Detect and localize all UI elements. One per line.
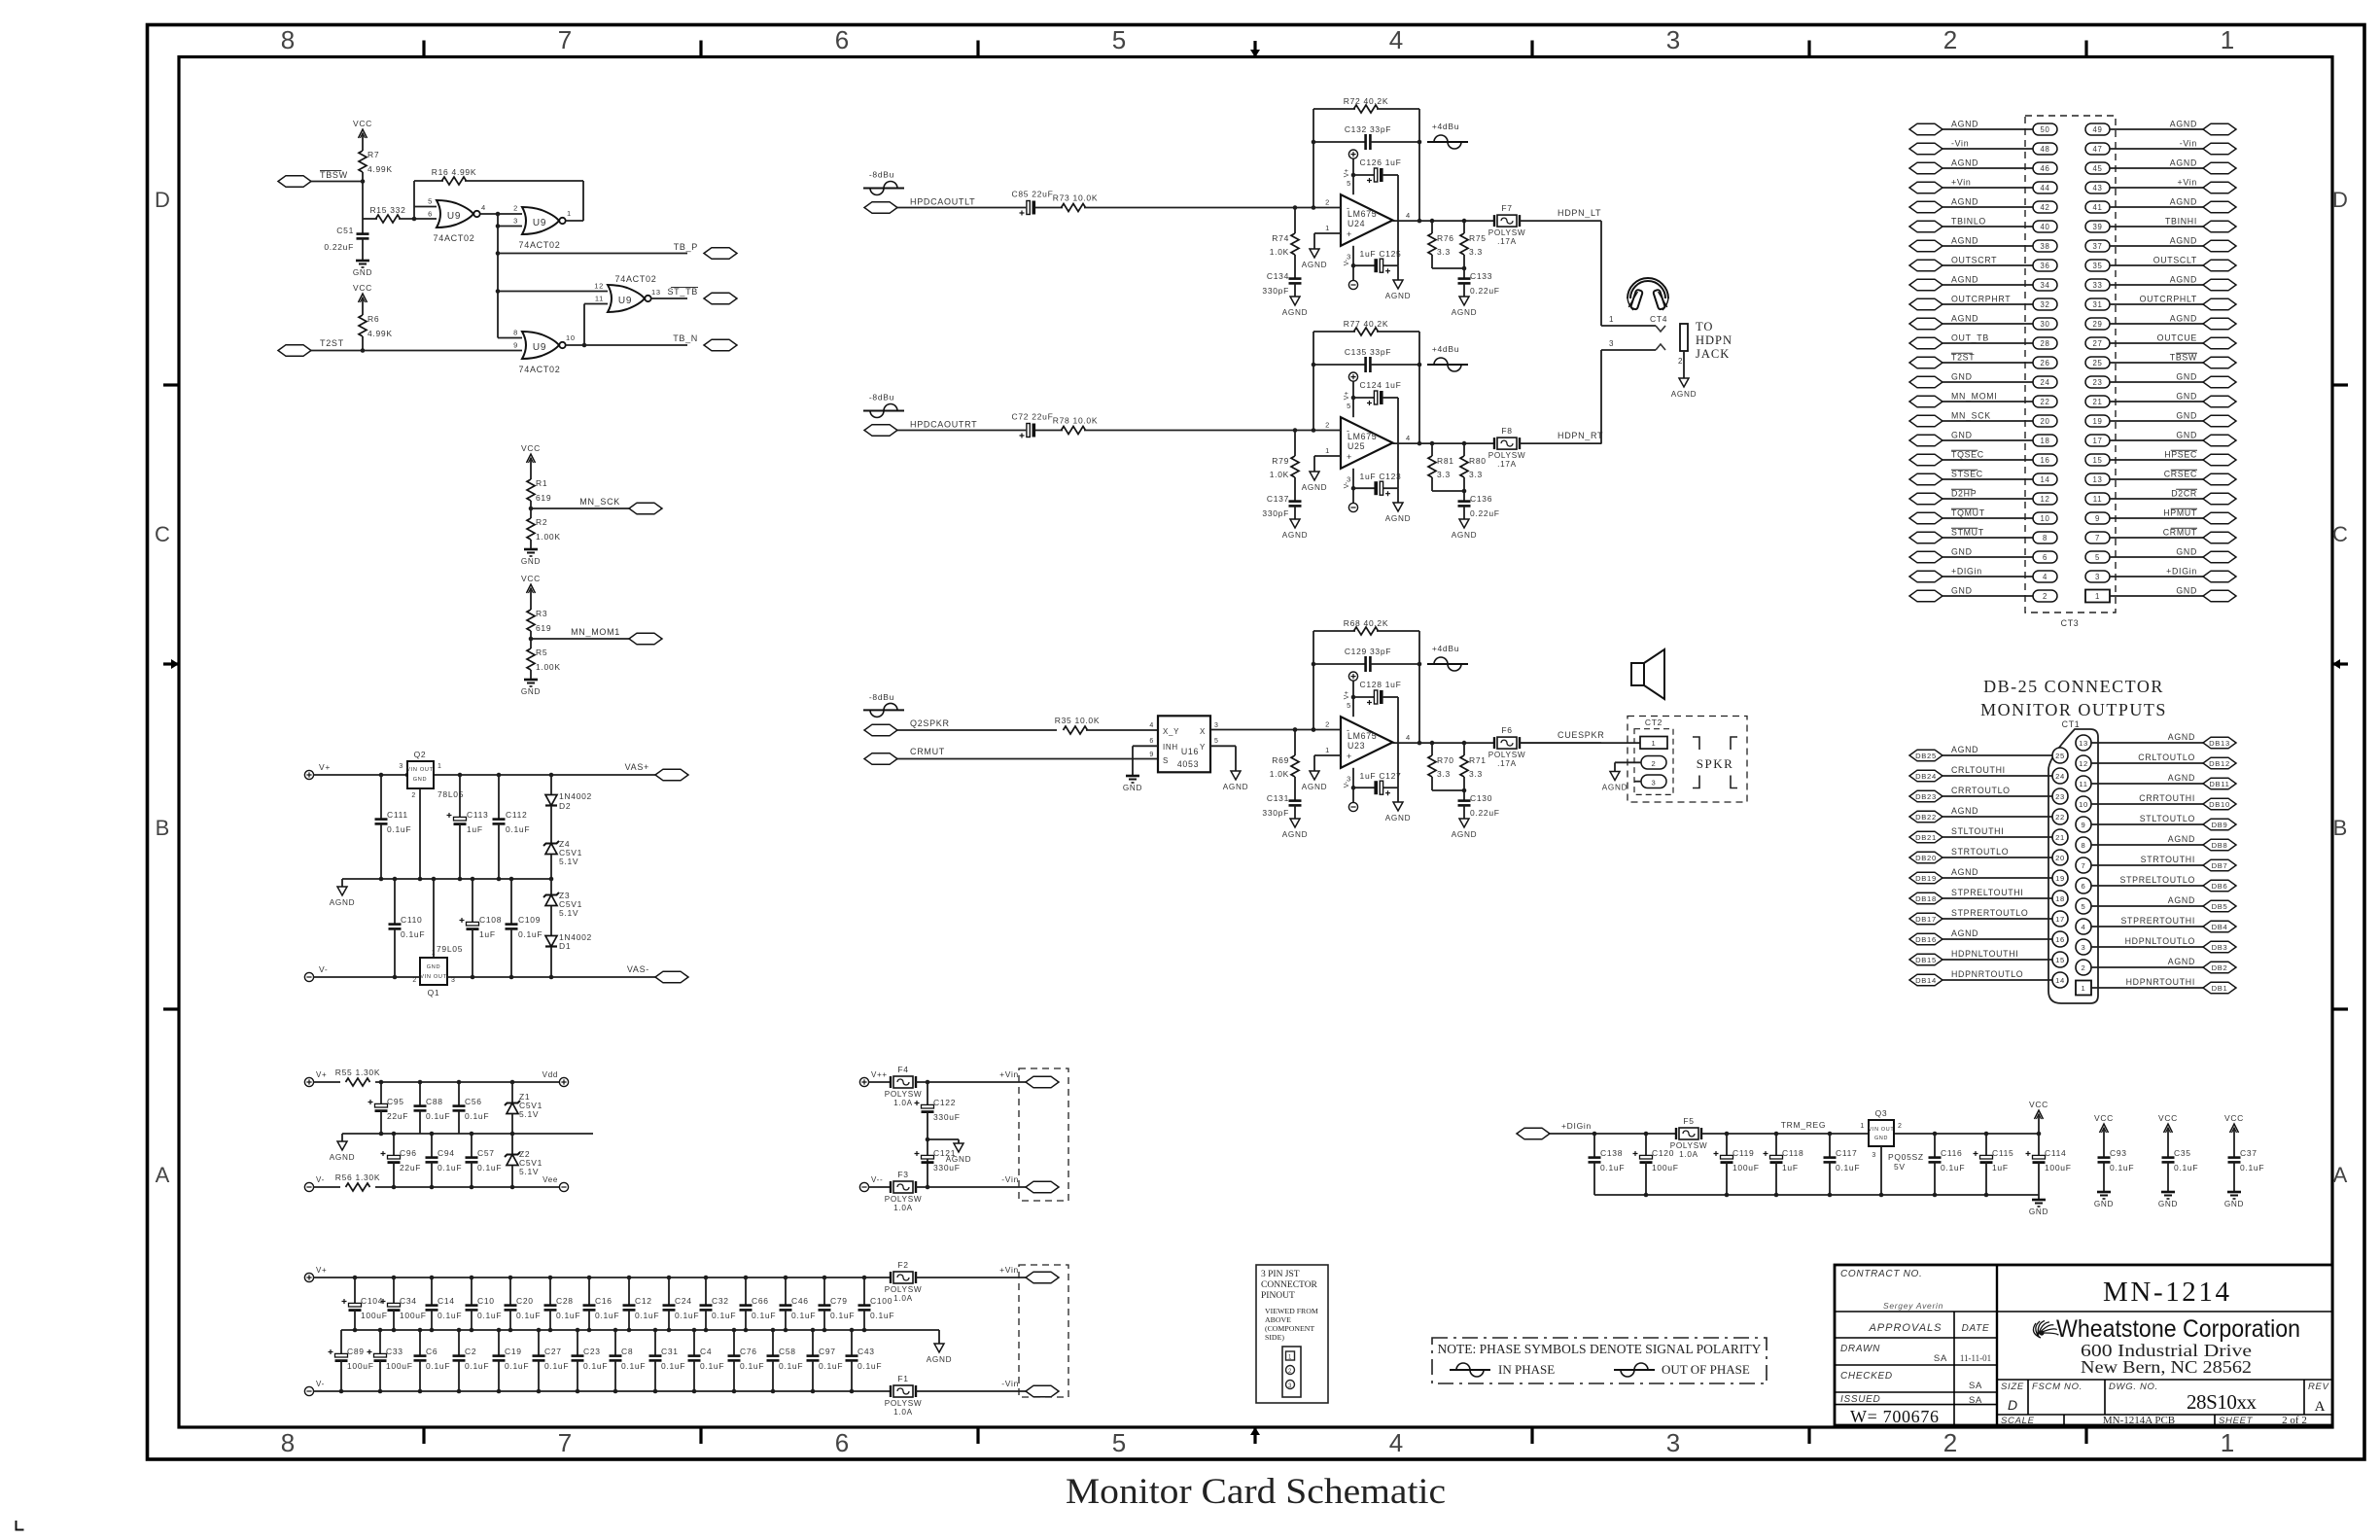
connector CT3 dashed outline <box>2025 116 2116 612</box>
wire feedback right vertical <box>1418 109 1420 221</box>
CT1 pin 6 row: DB6 STPRELTOUTLO <box>2076 875 2236 893</box>
svg-text:0.1uF: 0.1uF <box>465 1361 489 1371</box>
wire CT2 pin 2 to AGND <box>1615 761 1641 763</box>
svg-text:0.1uF: 0.1uF <box>791 1311 816 1320</box>
svg-text:DB4: DB4 <box>2212 923 2228 931</box>
svg-text:AGND: AGND <box>1602 784 1627 792</box>
svg-text:12: 12 <box>2040 495 2049 504</box>
svg-text:Monitor Card Schematic: Monitor Card Schematic <box>1066 1472 1446 1512</box>
dashed box (lower Vin flags) <box>1019 1265 1068 1397</box>
capacitor C19 0.1uF <box>493 1330 530 1391</box>
svg-text:3: 3 <box>1214 722 1219 729</box>
svg-text:REV: REV <box>2308 1382 2330 1392</box>
svg-text:4: 4 <box>1406 211 1411 220</box>
svg-text:GND: GND <box>427 964 441 970</box>
CT3 pin 27 row: OUTCUE <box>2085 333 2236 350</box>
svg-text:F2: F2 <box>897 1260 908 1270</box>
NOR gate U9a 74ACT02 <box>428 197 486 244</box>
power input V+ (cap bank) <box>304 1273 313 1281</box>
capacitor C66 0.1uF <box>740 1277 777 1330</box>
capacitor C110 0.1uF <box>389 879 426 977</box>
title block left column texts <box>1835 1269 1997 1426</box>
analog ground AGND (op-amp pin1) <box>1310 249 1319 258</box>
phase symbol +4dBu (in phase) <box>1427 344 1468 371</box>
svg-text:330pF: 330pF <box>1262 808 1289 818</box>
svg-text:R81: R81 <box>1437 456 1454 466</box>
svg-text:VCC: VCC <box>2029 1100 2048 1109</box>
capacitor C4 0.1uF <box>688 1330 725 1391</box>
zener Z2 C5V1 5.1V <box>505 1134 542 1187</box>
svg-text:C14: C14 <box>437 1296 455 1306</box>
wire R16 feedback vertical <box>413 181 415 219</box>
capacitor C20 0.1uF <box>505 1277 542 1330</box>
svg-text:33: 33 <box>2092 281 2102 290</box>
svg-text:AGND: AGND <box>1385 814 1411 822</box>
svg-text:3: 3 <box>2095 573 2100 581</box>
svg-text:C8: C8 <box>621 1347 633 1356</box>
svg-text:C120: C120 <box>1652 1148 1674 1158</box>
svg-text:5.1V: 5.1V <box>559 857 578 866</box>
input flag +DIGin <box>1517 1121 1676 1139</box>
jack sleeve bar <box>1680 324 1688 351</box>
capacitor C130 0.22uF <box>1458 793 1500 819</box>
svg-text:6: 6 <box>1149 738 1154 745</box>
svg-text:V-: V- <box>316 1175 325 1184</box>
svg-text:0.22uF: 0.22uF <box>324 242 354 252</box>
svg-text:A: A <box>2315 1399 2326 1415</box>
svg-text:VCC: VCC <box>521 443 541 453</box>
svg-text:JACK: JACK <box>1696 347 1730 361</box>
svg-text:30: 30 <box>2040 320 2049 329</box>
svg-text:40: 40 <box>2040 223 2049 231</box>
svg-text:0.1uF: 0.1uF <box>2174 1163 2198 1172</box>
wire bypass right vertical to AGND <box>1397 398 1399 488</box>
svg-text:13: 13 <box>2092 475 2102 484</box>
svg-text:VCC: VCC <box>2158 1113 2178 1123</box>
svg-text:R71: R71 <box>1469 755 1487 765</box>
feedback resistor R77 40.2K <box>1313 319 1419 335</box>
svg-text:HDPNLTOUTHI: HDPNLTOUTHI <box>1951 949 2018 959</box>
svg-text:2: 2 <box>1943 25 1957 54</box>
capacitor C27 0.1uF <box>533 1330 570 1391</box>
svg-text:DB25: DB25 <box>1915 752 1937 760</box>
svg-text:DB10: DB10 <box>2209 800 2230 809</box>
svg-text:2: 2 <box>1678 357 1683 366</box>
svg-text:C23: C23 <box>583 1347 601 1356</box>
svg-text:SHEET: SHEET <box>2219 1416 2254 1426</box>
svg-text:C88: C88 <box>426 1097 443 1106</box>
wire V++ to fuse F4 <box>868 1081 890 1083</box>
CT3 pin 6 row: GND <box>1909 547 2057 564</box>
svg-text:HDPNLTOUTLO: HDPNLTOUTLO <box>2125 936 2195 946</box>
wire regulator mid rail <box>342 878 551 880</box>
CT1 pin 11 row: DB11 AGND <box>2076 773 2236 791</box>
svg-text:C104: C104 <box>361 1296 383 1306</box>
svg-text:C130: C130 <box>1470 793 1492 803</box>
analog ground AGND (op-amp pin1) <box>1310 771 1319 780</box>
CT1 pin 2 row: DB2 AGND <box>2076 957 2236 975</box>
NOR gate U9c 74ACT02 <box>594 274 661 312</box>
svg-text:C137: C137 <box>1267 494 1289 504</box>
capacitor C137 330pF <box>1262 494 1301 519</box>
svg-text:DB13: DB13 <box>2209 739 2230 748</box>
wire op-amp output <box>1393 742 1495 744</box>
capacitor C32 0.1uF <box>700 1277 737 1330</box>
svg-text:VCC: VCC <box>521 574 541 583</box>
svg-text:28S10xx: 28S10xx <box>2187 1390 2257 1414</box>
svg-text:100uF: 100uF <box>1732 1163 1760 1172</box>
svg-text:SIDE): SIDE) <box>1265 1333 1284 1342</box>
capacitor C133 0.22uF <box>1458 271 1500 297</box>
svg-text:1: 1 <box>2095 592 2100 601</box>
capacitor C14 0.1uF <box>426 1277 463 1330</box>
svg-text:C112: C112 <box>506 810 528 820</box>
wire op-amp V+ pin <box>1352 381 1354 417</box>
svg-text:32: 32 <box>2040 300 2049 309</box>
svg-text:1: 1 <box>1325 224 1330 232</box>
svg-text:POLYSW: POLYSW <box>1670 1141 1708 1150</box>
svg-text:R35 10.0K: R35 10.0K <box>1055 716 1100 725</box>
svg-text:V-: V- <box>1344 481 1350 488</box>
analog ground AGND (bypass) <box>1393 802 1403 811</box>
svg-text:CONNECTOR: CONNECTOR <box>1261 1280 1318 1290</box>
svg-text:0.1uF: 0.1uF <box>426 1111 450 1121</box>
svg-text:A: A <box>156 1163 170 1187</box>
output flag TB_P <box>498 242 737 259</box>
svg-text:6: 6 <box>835 1428 849 1457</box>
svg-text:Q2: Q2 <box>414 750 427 759</box>
svg-text:+4dBu: +4dBu <box>1432 122 1459 131</box>
svg-text:AGND: AGND <box>2168 834 2195 844</box>
wire F5 to Q3 and VCC <box>1701 1133 1869 1135</box>
svg-text:AGND: AGND <box>2170 197 2197 207</box>
svg-text:10: 10 <box>2040 514 2049 523</box>
svg-text:8: 8 <box>2043 534 2047 542</box>
svg-text:GND: GND <box>1123 784 1142 792</box>
svg-text:R68 40.2K: R68 40.2K <box>1344 618 1388 628</box>
title block outline <box>1835 1265 2332 1425</box>
resistor R78 10.0K <box>1053 416 1341 435</box>
svg-text:13: 13 <box>651 288 661 297</box>
CT1 pin 21 row: DB21 STLTOUTHI <box>1909 826 2068 845</box>
svg-text:AGND: AGND <box>330 1153 355 1162</box>
svg-text:CT2: CT2 <box>1645 717 1662 727</box>
CT1 pin 23 row: DB23 CRRTOUTLO <box>1909 786 2068 804</box>
svg-text:+4dBu: +4dBu <box>1432 644 1459 653</box>
svg-text:2 of 2: 2 of 2 <box>2282 1415 2307 1426</box>
svg-text:GND: GND <box>1951 586 1973 596</box>
svg-text:LM675: LM675 <box>1347 432 1377 441</box>
analog ground AGND (U16 Y) <box>1231 771 1241 780</box>
svg-text:C133: C133 <box>1470 271 1492 281</box>
svg-text:HDPNRTOUTLO: HDPNRTOUTLO <box>1951 969 2023 979</box>
svg-text:AGND: AGND <box>1302 783 1327 791</box>
node MN_SCK <box>530 501 532 508</box>
svg-text:23: 23 <box>2055 792 2065 801</box>
wire V- cap bank rail <box>313 1390 890 1392</box>
svg-text:C128 1uF: C128 1uF <box>1360 680 1402 689</box>
svg-text:+DIGin: +DIGin <box>1561 1121 1592 1131</box>
svg-text:25: 25 <box>2055 752 2065 760</box>
phase symbol -8dBu (HPDCAOUTRT) <box>863 393 904 418</box>
svg-text:VAS-: VAS- <box>627 964 649 974</box>
svg-text:4: 4 <box>1406 434 1411 442</box>
svg-text:19: 19 <box>2055 874 2065 883</box>
svg-text:4.99K: 4.99K <box>367 164 393 174</box>
CT1 pin 7 row: DB7 STRTOUTHI <box>2076 855 2236 873</box>
wire Q3 GND down <box>1880 1146 1882 1195</box>
svg-text:V-: V- <box>1344 781 1350 787</box>
analog ground AGND (zobel) <box>1459 297 1469 305</box>
svg-text:0.1uF: 0.1uF <box>426 1361 450 1371</box>
svg-text:SCALE: SCALE <box>2001 1416 2035 1426</box>
svg-text:GND: GND <box>1951 547 1973 557</box>
svg-text:D2HP: D2HP <box>1951 489 1977 499</box>
svg-text:OUTSCLT: OUTSCLT <box>2153 256 2197 265</box>
svg-text:21: 21 <box>2055 833 2065 842</box>
svg-text:R74: R74 <box>1272 233 1289 243</box>
CT1 pin 8 row: DB8 AGND <box>2076 834 2236 853</box>
power input V- (Vee network) <box>304 1182 313 1191</box>
svg-text:15: 15 <box>2055 956 2065 964</box>
capacitor C2 0.1uF <box>453 1330 490 1391</box>
CT2 pin 2 <box>1641 756 1666 770</box>
svg-text:1.00K: 1.00K <box>536 532 561 542</box>
svg-text:1.0A: 1.0A <box>893 1204 913 1212</box>
svg-text:1.0K: 1.0K <box>1270 247 1289 257</box>
svg-text:2: 2 <box>1325 720 1330 729</box>
input flag HPDCAOUTLT <box>864 197 1026 214</box>
svg-text:B: B <box>156 816 170 840</box>
CT1 pin 25 row: DB25 AGND <box>1909 745 2068 763</box>
svg-text:3.3: 3.3 <box>1437 769 1451 779</box>
svg-text:F7: F7 <box>1501 203 1512 213</box>
node R15/R16 junction <box>412 217 417 222</box>
ground GND (TRM_REG) <box>2038 1195 2040 1200</box>
svg-text:GND: GND <box>413 777 428 783</box>
svg-text:B: B <box>2333 816 2348 840</box>
svg-text:DB5: DB5 <box>2212 902 2228 911</box>
svg-text:31: 31 <box>2092 300 2102 309</box>
svg-text:C35: C35 <box>2174 1148 2191 1158</box>
svg-text:C76: C76 <box>740 1347 757 1356</box>
svg-text:POLYSW: POLYSW <box>885 1399 923 1408</box>
svg-text:7: 7 <box>558 1428 572 1457</box>
CT3 pin 9 row: HPMUT <box>2085 508 2236 525</box>
CT1 pin 9 row: DB9 STLTOUTLO <box>2076 814 2236 832</box>
svg-text:3: 3 <box>1609 339 1614 348</box>
svg-text:0.1uF: 0.1uF <box>544 1361 569 1371</box>
input flag Q2SPKR <box>864 718 1057 736</box>
svg-text:4: 4 <box>1149 722 1154 729</box>
svg-text:+: + <box>1347 452 1352 462</box>
svg-text:74ACT02: 74ACT02 <box>519 240 561 250</box>
resistor R76 3.3 <box>1428 221 1454 268</box>
svg-text:C136: C136 <box>1470 494 1492 504</box>
CT3 pin 20 row: MN_SCK <box>1909 411 2057 428</box>
capacitor C115 1uF <box>1974 1134 2014 1195</box>
svg-text:W= 700676: W= 700676 <box>1850 1407 1939 1426</box>
svg-text:+Vin: +Vin <box>1951 178 1972 188</box>
svg-text:3: 3 <box>399 763 403 770</box>
CT3 pin 26 row: T2ST <box>1909 353 2057 369</box>
wire to U9d pin 8 <box>498 337 522 339</box>
svg-text:0.1uF: 0.1uF <box>583 1361 608 1371</box>
wire V+ rail to VAS+ <box>313 774 657 776</box>
power pin circle V- <box>1348 802 1357 811</box>
capacitor C46 0.1uF <box>780 1277 817 1330</box>
analog ground AGND (jack) <box>1679 378 1689 387</box>
svg-text:APPROVALS: APPROVALS <box>1868 1322 1942 1334</box>
diode D2 1N4002 <box>545 775 592 843</box>
fuse F2 POLYSW 1.0A <box>885 1260 923 1303</box>
svg-text:2: 2 <box>1652 759 1657 768</box>
phase symbol +4dBu (in phase) <box>1427 122 1468 149</box>
feedback capacitor C129 33pF <box>1313 647 1419 672</box>
diode D1 1N4002 <box>545 932 592 977</box>
resistor R35 10.0K <box>1055 716 1158 734</box>
resistor R71 3.3 <box>1460 743 1487 801</box>
phase symbol +4dBu (in phase) <box>1427 644 1468 671</box>
CT3 pin 38 row: AGND <box>1909 236 2057 253</box>
svg-text:0.1uF: 0.1uF <box>857 1361 882 1371</box>
wire feedback left vertical <box>1312 332 1314 431</box>
capacitor C28 0.1uF <box>544 1277 581 1330</box>
resistor R70 3.3 <box>1428 743 1454 790</box>
CT3 pin 22 row: MN_MOMI <box>1909 392 2057 408</box>
svg-text:10: 10 <box>2079 800 2088 809</box>
CT3 pin 29 row: AGND <box>2085 314 2236 331</box>
CT3 pin 14 row: STSEC <box>1909 470 2057 486</box>
svg-text:C93: C93 <box>2110 1148 2127 1158</box>
resistor R6 4.99K <box>359 314 393 338</box>
svg-text:R2: R2 <box>536 517 547 527</box>
svg-text:-Vin: -Vin <box>1001 1174 1019 1184</box>
CT1 pin 14 row: DB14 HDPNRTOUTLO <box>1909 969 2068 988</box>
capacitor C109 0.1uF <box>506 879 543 977</box>
svg-text:CONTRACT NO.: CONTRACT NO. <box>1840 1269 1923 1279</box>
svg-text:22: 22 <box>2040 398 2049 406</box>
svg-text:100uF: 100uF <box>2045 1163 2072 1172</box>
svg-text:AGND: AGND <box>1302 261 1327 269</box>
svg-text:0.1uF: 0.1uF <box>700 1361 724 1371</box>
svg-text:3.3: 3.3 <box>1469 769 1483 779</box>
svg-text:R55 1.30K: R55 1.30K <box>335 1067 380 1077</box>
CT3 pin 45 row: AGND <box>2085 158 2236 175</box>
svg-text:TO: TO <box>1696 320 1713 333</box>
svg-text:V-: V- <box>316 1380 325 1388</box>
zener Z4 C5V1 5.1V <box>543 839 582 879</box>
svg-text:42: 42 <box>2040 203 2049 212</box>
CT3 pin 39 row: TBINHI <box>2085 217 2236 233</box>
svg-text:VCC: VCC <box>353 283 372 293</box>
CT1 pin 4 row: DB4 STPRERTOUTHI <box>2076 916 2236 934</box>
svg-text:0.1uF: 0.1uF <box>675 1311 699 1320</box>
wire zobel join <box>1432 490 1464 492</box>
CT3 pin 28 row: OUT_TB <box>1909 333 2057 350</box>
CT1 pin 1 row: DB1 HDPNRTOUTHI <box>2076 977 2236 996</box>
svg-text:TBSW: TBSW <box>320 170 348 180</box>
svg-text:619: 619 <box>536 493 551 503</box>
input flag HPDCAOUTRT <box>864 420 1026 437</box>
CT3 pin 23 row: GND <box>2085 372 2236 389</box>
svg-text:38: 38 <box>2040 242 2049 251</box>
svg-text:2: 2 <box>1325 421 1330 430</box>
wire Vee rail dots <box>392 1185 397 1190</box>
svg-text:C100: C100 <box>870 1296 892 1306</box>
svg-text:Q1: Q1 <box>428 988 440 997</box>
svg-text:R70: R70 <box>1437 755 1454 765</box>
svg-text:+: + <box>1347 229 1352 239</box>
svg-text:20: 20 <box>2055 854 2065 862</box>
svg-text:1: 1 <box>1860 1123 1865 1130</box>
svg-text:2: 2 <box>2043 592 2047 601</box>
svg-text:-8dBu: -8dBu <box>869 170 894 180</box>
svg-text:C46: C46 <box>791 1296 809 1306</box>
svg-text:C117: C117 <box>1836 1148 1858 1158</box>
svg-text:C43: C43 <box>857 1347 875 1356</box>
output flag VAS+ <box>625 762 688 781</box>
svg-text:U9: U9 <box>447 211 461 222</box>
svg-text:CRRTOUTLO: CRRTOUTLO <box>1951 786 2011 795</box>
svg-text:A: A <box>2333 1163 2348 1187</box>
svg-text:F8: F8 <box>1501 426 1512 436</box>
svg-text:6: 6 <box>2043 553 2047 562</box>
svg-text:0.1uF: 0.1uF <box>740 1361 764 1371</box>
svg-text:GND: GND <box>1874 1136 1888 1141</box>
svg-text:3: 3 <box>451 977 456 984</box>
svg-text:D2: D2 <box>559 801 571 811</box>
svg-text:C57: C57 <box>477 1148 495 1158</box>
CT3 pin 3 row: +DIGin <box>2085 567 2236 583</box>
svg-text:0.1uF: 0.1uF <box>477 1311 502 1320</box>
svg-text:7: 7 <box>558 25 572 54</box>
svg-text:U25: U25 <box>1347 441 1365 451</box>
resistor R74 1.0K <box>1293 205 1298 210</box>
fuse F1 POLYSW 1.0A <box>885 1374 923 1417</box>
CT1 pin 13 row: DB13 AGND <box>2076 732 2236 751</box>
CT3 pin 5 row: GND <box>2085 547 2236 564</box>
svg-text:27: 27 <box>2092 339 2102 348</box>
CT2 pin 1 <box>1640 737 1667 750</box>
svg-text:0.1uF: 0.1uF <box>621 1361 646 1371</box>
wire R6 to T2ST <box>362 336 364 351</box>
phase symbol -8dBu (HPDCAOUTLT) <box>863 170 904 195</box>
output flag TB_N <box>566 333 737 351</box>
analog switch U16 4053 <box>1149 716 1218 772</box>
capacitor C116 0.1uF <box>1929 1134 1966 1195</box>
svg-text:5V: 5V <box>1894 1162 1906 1172</box>
svg-text:2: 2 <box>1288 1369 1292 1375</box>
svg-text:1: 1 <box>2221 25 2234 54</box>
capacitor C24 0.1uF <box>663 1277 700 1330</box>
svg-text:0.1uF: 0.1uF <box>752 1311 776 1320</box>
svg-text:STLTOUTLO: STLTOUTLO <box>2140 814 2195 823</box>
resistor R15 332 <box>363 205 437 223</box>
capacitor C112 0.1uF <box>493 775 531 879</box>
capacitor C124 1uF (V+ bypass) <box>1351 380 1402 405</box>
phase symbol -8dBu (Q2SPKR) <box>863 692 904 717</box>
CT3 pin 30 row: AGND <box>1909 314 2057 331</box>
svg-text:DB11: DB11 <box>2209 780 2229 788</box>
svg-text:C85 22uF: C85 22uF <box>1012 190 1054 199</box>
svg-text:INH: INH <box>1163 743 1178 752</box>
capacitor C104 100uF <box>342 1277 388 1330</box>
svg-text:GND: GND <box>2176 547 2197 557</box>
fuse F8 POLYSW .17A <box>1488 426 1526 469</box>
svg-text:15: 15 <box>2092 456 2102 465</box>
svg-text:11: 11 <box>2093 495 2103 504</box>
